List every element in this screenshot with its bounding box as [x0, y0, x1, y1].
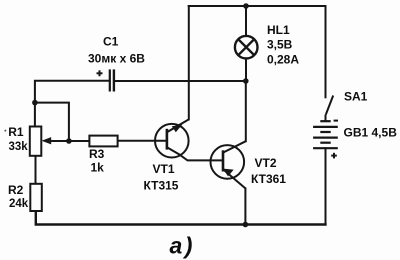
svg-text:HL1: HL1 [267, 23, 290, 37]
transistor VT1 [155, 119, 189, 157]
capacitor C1 [97, 69, 114, 91]
svg-text:КТ361: КТ361 [251, 172, 286, 186]
svg-text:R2: R2 [8, 183, 24, 197]
svg-text:а): а) [170, 233, 195, 259]
wire R3 to VT1 base [118, 140, 167, 142]
resistor R3 [89, 136, 117, 147]
svg-text:VT2: VT2 [255, 156, 277, 170]
svg-text:GB1 4,5В: GB1 4,5В [344, 126, 398, 140]
wire lamp top [245, 6, 247, 36]
svg-text:30мк x 6В: 30мк x 6В [88, 51, 145, 65]
wire lamp bottom [245, 59, 247, 81]
svg-text:3,5В: 3,5В [267, 37, 293, 51]
svg-text:VT1: VT1 [153, 162, 175, 176]
svg-text:24k: 24k [9, 198, 29, 210]
R1 wiper arrowhead [42, 137, 52, 144]
node A top rail junction [243, 3, 249, 9]
svg-text:C1: C1 [103, 34, 119, 48]
lamp HL1 [235, 36, 258, 59]
wire VT1 collector vertical [188, 6, 190, 119]
resistor R2 [30, 184, 42, 211]
svg-text:1k: 1k [91, 161, 105, 175]
battery plus mark [331, 153, 337, 159]
svg-text:КТ315: КТ315 [144, 179, 179, 193]
battery minus mark [334, 120, 338, 122]
node B C1-VT2 junction [243, 78, 249, 84]
wire C1 right [114, 80, 246, 82]
node D wiper junction [66, 138, 72, 144]
svg-text:SA1: SA1 [344, 89, 368, 103]
svg-text:R1: R1 [8, 125, 24, 139]
transistor VT2 [211, 141, 246, 188]
wire R2 to bottom rail [36, 211, 326, 225]
wire wiper link [35, 103, 69, 141]
wire battery bottom lead [325, 148, 327, 224]
switch SA1 [326, 96, 334, 122]
svg-text:R3: R3 [89, 147, 105, 161]
wire R1 wiper arrow line [46, 140, 69, 142]
node C R1 top junction [32, 100, 38, 106]
wire VT2 emitter vertical [244, 188, 246, 224]
battery GB1 [313, 121, 338, 148]
svg-text:33k: 33k [9, 141, 29, 153]
node E bottom rail junction [243, 222, 249, 228]
wire VT2 collector vertical [245, 81, 247, 141]
wire R3 left lead [69, 140, 90, 142]
VT1 emitter arrowhead [172, 125, 183, 133]
resistor R1 (potentiometer) [30, 127, 42, 156]
VT2 emitter arrowhead [223, 169, 234, 177]
wire R1 to R2 [35, 156, 37, 184]
wire VT1 emitter to VT2 base [180, 155, 223, 161]
stray dot artifact [4, 130, 6, 132]
wire right column to SA1 [325, 6, 327, 97]
svg-text:0,28А: 0,28А [267, 52, 299, 66]
wire top rail [189, 5, 326, 7]
wire C1 left [35, 81, 110, 127]
